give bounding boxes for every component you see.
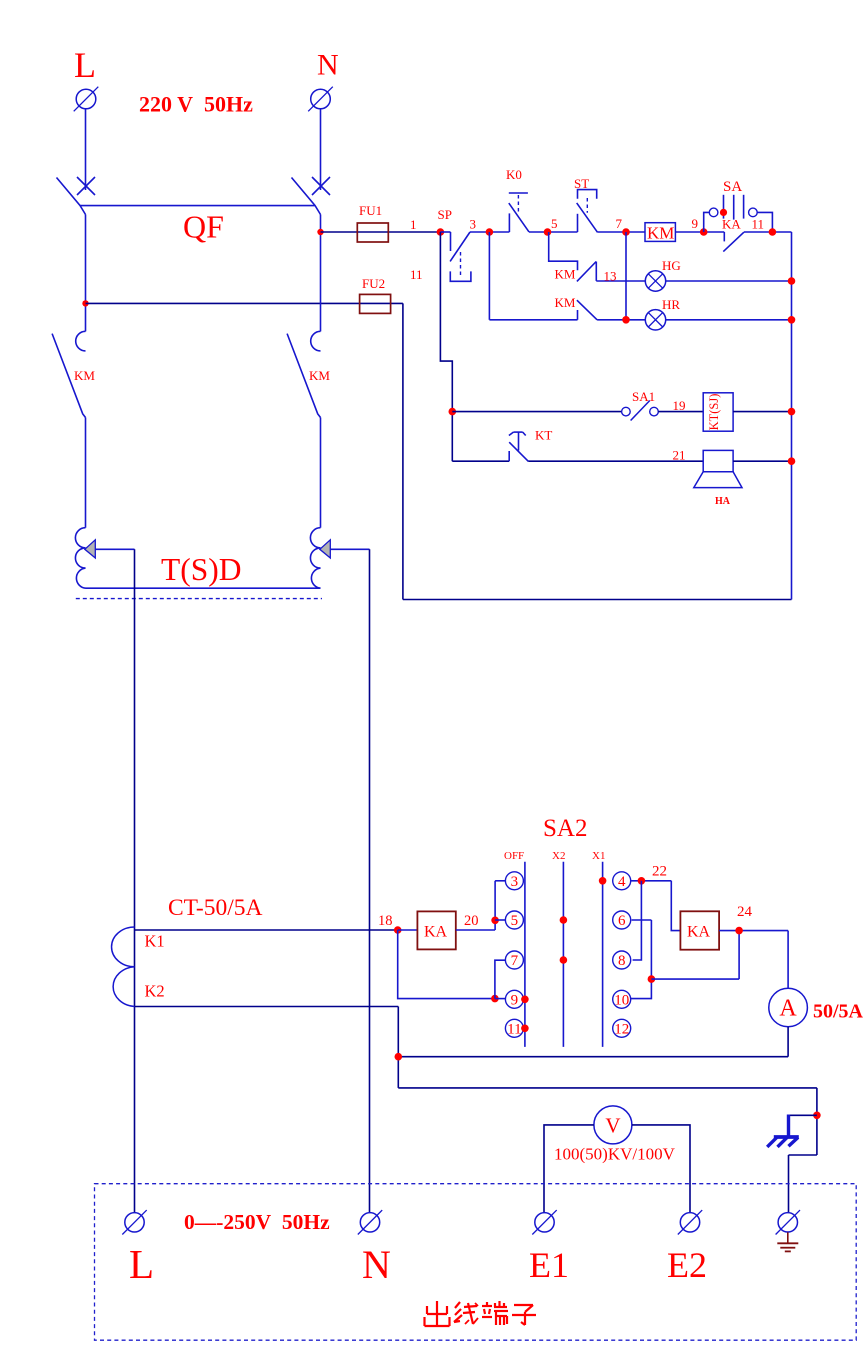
svg-text:N: N [317,49,339,82]
svg-text:50/5A: 50/5A [813,1001,864,1023]
svg-text:20: 20 [464,913,479,929]
svg-text:5: 5 [551,216,558,231]
svg-text:KM: KM [647,224,674,243]
svg-text:A: A [779,996,797,1022]
svg-text:QF: QF [183,209,224,245]
svg-text:6: 6 [618,913,626,929]
svg-text:K2: K2 [145,982,165,1001]
svg-text:18: 18 [378,913,393,929]
svg-text:100(50)KV/100V: 100(50)KV/100V [554,1145,676,1164]
svg-text:9: 9 [511,992,519,1008]
svg-text:E2: E2 [667,1245,707,1285]
svg-text:L: L [129,1241,154,1287]
svg-text:9: 9 [692,216,699,231]
svg-text:T(S)D: T(S)D [161,552,242,587]
svg-text:X1: X1 [592,850,605,862]
svg-text:7: 7 [511,953,519,969]
svg-text:220 V 50Hz: 220 V 50Hz [139,92,253,117]
svg-text:4: 4 [618,874,626,890]
svg-text:KM: KM [555,267,576,282]
svg-text:L: L [74,45,96,85]
svg-text:KM: KM [309,368,330,383]
svg-text:5: 5 [511,913,519,929]
svg-text:KA: KA [722,217,741,232]
svg-text:K0: K0 [506,167,522,182]
svg-text:3: 3 [470,217,477,232]
svg-text:1: 1 [410,217,417,232]
svg-text:OFF: OFF [504,850,524,862]
svg-text:HR: HR [662,297,680,312]
svg-text:HA: HA [715,496,731,507]
svg-text:0—-250V 50Hz: 0—-250V 50Hz [184,1210,330,1234]
svg-text:21: 21 [673,448,686,463]
svg-text:12: 12 [614,1021,629,1037]
svg-text:24: 24 [737,904,753,920]
svg-text:11: 11 [410,267,423,282]
svg-text:SA1: SA1 [632,389,655,404]
svg-text:KM: KM [74,368,95,383]
svg-text:10: 10 [614,992,629,1008]
svg-text:8: 8 [618,953,626,969]
svg-text:ST: ST [574,176,589,191]
svg-text:FU2: FU2 [362,276,385,291]
svg-text:V: V [605,1114,620,1138]
svg-text:E1: E1 [529,1245,569,1285]
svg-text:3: 3 [511,874,519,890]
svg-text:SP: SP [438,207,452,222]
svg-text:11: 11 [752,217,765,232]
svg-text:7: 7 [616,216,623,231]
svg-text:11: 11 [507,1021,521,1037]
svg-text:KA: KA [687,924,711,941]
svg-text:HG: HG [662,258,681,273]
svg-text:22: 22 [652,864,667,880]
svg-text:X2: X2 [552,850,565,862]
svg-text:N: N [362,1242,391,1287]
svg-text:19: 19 [673,398,686,413]
svg-text:13: 13 [604,269,617,284]
svg-text:KM: KM [555,295,576,310]
svg-text:K1: K1 [145,932,165,951]
svg-text:KT(SJ): KT(SJ) [707,394,721,431]
svg-text:SA: SA [723,179,742,195]
svg-text:SA2: SA2 [543,815,587,842]
svg-text:FU1: FU1 [359,203,382,218]
svg-text:KA: KA [424,924,448,941]
svg-text:KT: KT [535,428,552,443]
svg-text:CT-50/5A: CT-50/5A [168,895,262,921]
